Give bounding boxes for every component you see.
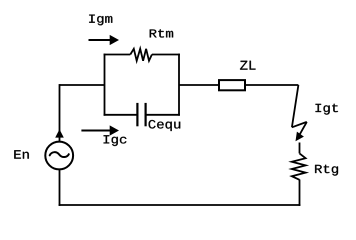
label En xyxy=(14,150,28,158)
label Cequ xyxy=(149,120,181,131)
voltage source En circle xyxy=(45,142,73,170)
impedance ZL box xyxy=(219,80,245,90)
wire: right vertical lower segment xyxy=(299,180,301,206)
label Igm xyxy=(89,15,112,26)
wire: top branch left flat xyxy=(104,54,131,56)
parallel box left side xyxy=(104,54,106,116)
wire: top branch right flat xyxy=(152,54,180,56)
capacitor Cequ left plate xyxy=(136,103,138,126)
Igm current arrow shaft xyxy=(89,39,111,41)
Igt lightning bolt stroke 1 xyxy=(292,85,299,127)
wire: top-left horizontal stub xyxy=(60,84,106,86)
label Rtm xyxy=(150,29,173,37)
wire: bottom horizontal xyxy=(59,204,301,206)
En upward arrowhead on left wire xyxy=(55,129,64,137)
parallel box right side xyxy=(178,54,180,116)
wire: ZL to top-right corner xyxy=(246,84,299,86)
resistor Rtm zigzag xyxy=(130,49,152,61)
label Igt xyxy=(316,104,338,115)
Igc current arrow shaft xyxy=(81,130,110,132)
label ZL xyxy=(240,61,255,70)
wire: left vertical lower segment xyxy=(59,170,61,206)
capacitor Cequ right plate xyxy=(145,103,147,126)
Igt lightning arrowhead xyxy=(296,132,304,142)
wire: box right side to ZL xyxy=(179,84,219,86)
Igt lightning bolt stroke 2 xyxy=(292,122,307,127)
label Igc xyxy=(104,135,127,146)
resistor Rtg zigzag xyxy=(292,153,306,179)
sine wave inside En xyxy=(50,152,69,157)
wire: bottom branch left flat xyxy=(104,114,138,116)
Igm arrowhead xyxy=(110,35,119,45)
Igc arrowhead xyxy=(110,125,119,135)
Igt lightning bolt stroke 3 xyxy=(298,122,307,138)
wire: bottom branch right flat xyxy=(146,114,180,116)
wire: left vertical upper segment xyxy=(59,84,61,141)
label Rtg xyxy=(315,165,338,176)
wire: right vertical between Igt arrow and Rtg xyxy=(299,143,301,154)
